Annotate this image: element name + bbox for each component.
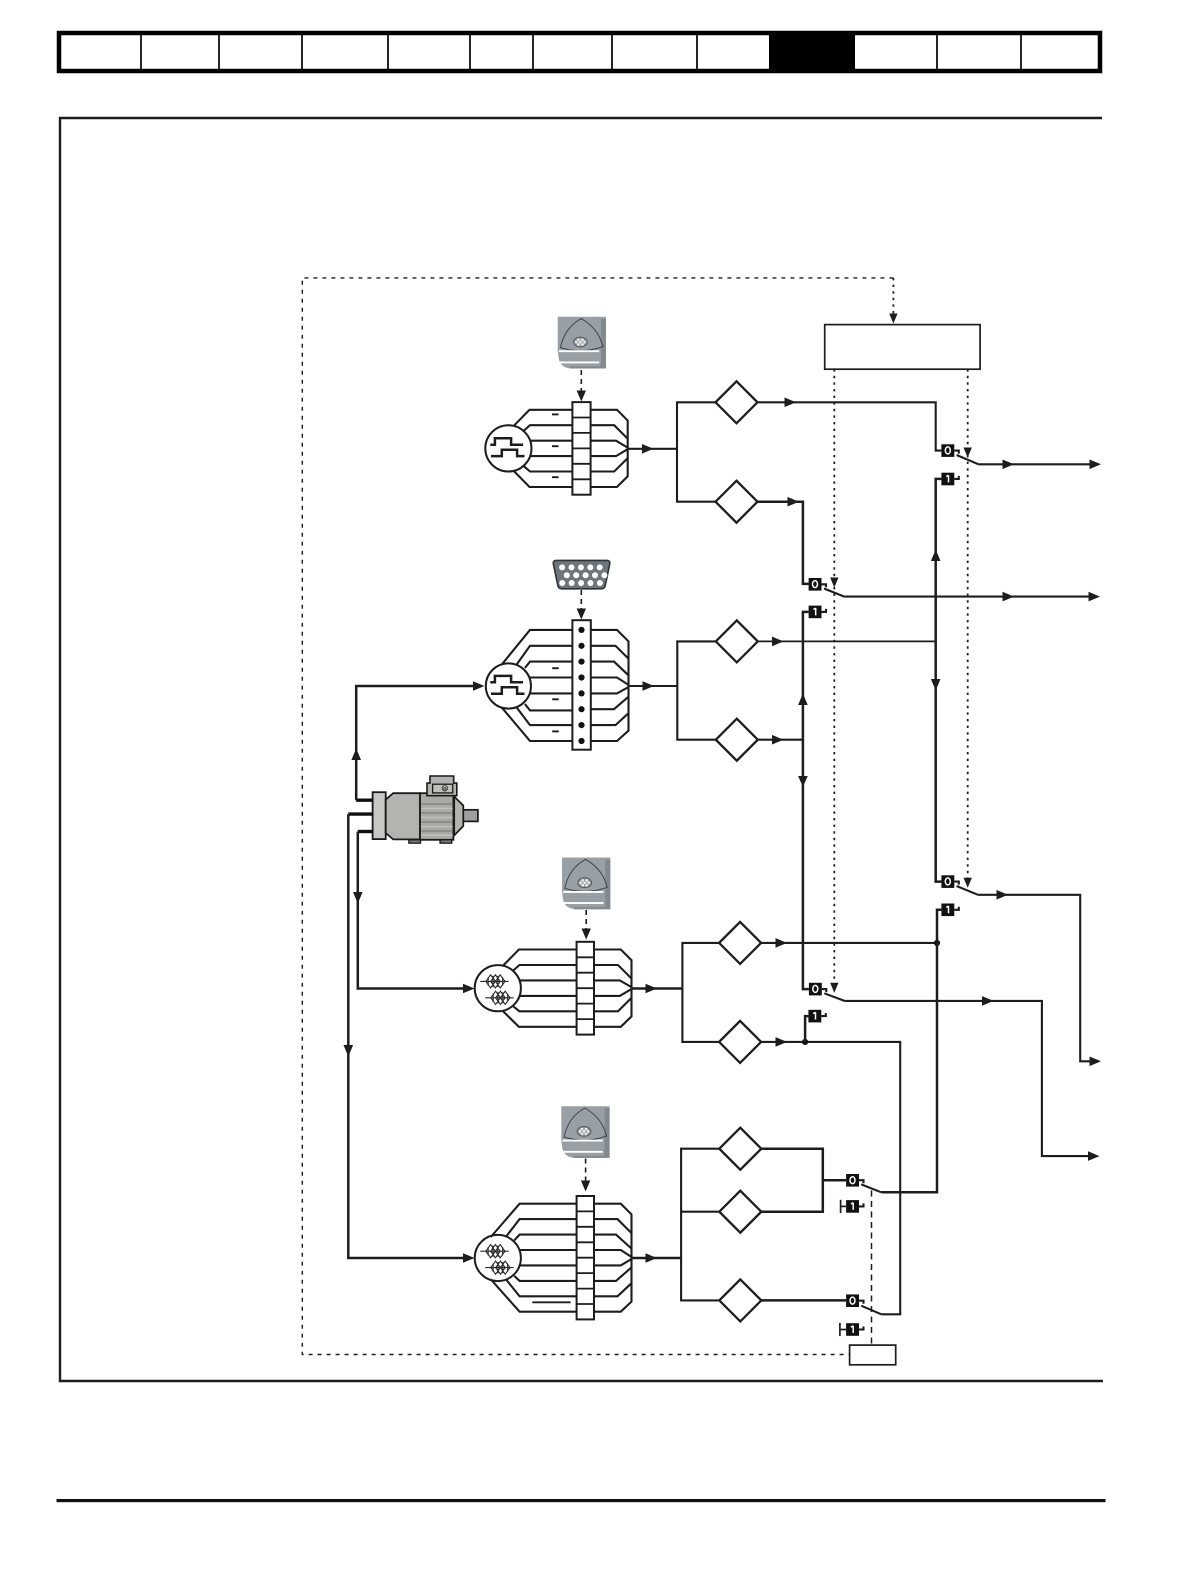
slot select box: [850, 1345, 896, 1365]
selector D output wire: [845, 996, 1100, 1161]
diamond P3a: [719, 922, 761, 964]
page frame: [60, 118, 1103, 1381]
trunk motor to encoder 3: [353, 832, 475, 994]
encoder 3 branch: [682, 943, 719, 1042]
diamond P1a: [716, 381, 758, 423]
complement marks encoder 1: [552, 414, 559, 477]
selector D input-1 lead to dot: [805, 1016, 808, 1042]
dashed link D-type to terminal strip: [577, 590, 586, 620]
dashed link icon4 to terminal strip: [581, 1159, 590, 1192]
wire P1b to selector B0: [758, 497, 809, 584]
right bus-2 vertical (dot to selector E output): [881, 943, 937, 1192]
encoder 2 terminal strip with pins: [572, 620, 590, 750]
solutions module icon slot 1: [558, 317, 606, 369]
dotted control line right (to selectors A and C): [964, 369, 972, 888]
trunk motor to encoder 4: [344, 814, 475, 1263]
selector A output wire: [979, 460, 1102, 470]
diamond P1b: [716, 481, 758, 523]
encoder 4 resolver source circle: [475, 1235, 521, 1281]
encoder 4 branch: [681, 1149, 719, 1301]
encoder 3 output wire: [632, 984, 683, 994]
trunk motor to encoder 2: [351, 681, 484, 800]
wire P2b to left bus: [758, 735, 803, 745]
wire P4c to selector F: [761, 1299, 846, 1302]
selector switch E: [841, 1174, 882, 1213]
option select box: [825, 325, 980, 370]
encoder 2 D-type connector icon: [553, 560, 610, 588]
complement marks encoder 2: [552, 668, 559, 731]
dashed control line selectors E/F: [871, 1191, 873, 1346]
diamond P4c: [719, 1279, 761, 1321]
encoder 2 branch: [677, 641, 716, 739]
solutions module icon slot 3: [561, 1106, 609, 1158]
wire P2a to right bus: [758, 637, 936, 647]
encoder 3 resolver source circle: [475, 965, 521, 1011]
selector C output wire: [978, 890, 1101, 1066]
encoder 2 output wire: [629, 681, 678, 691]
dashed option-fitted boundary: [302, 278, 893, 1355]
encoder 1 pulse source circle: [485, 425, 531, 471]
selector B output wire: [844, 592, 1100, 602]
encoder 1 branch: [677, 402, 716, 501]
diamond P2a: [716, 620, 758, 662]
diamond P2b: [716, 719, 758, 761]
header menu navigation table: [59, 31, 1100, 73]
wire P1a to selector A0: [758, 398, 942, 451]
selector B input-1 lead (left bus): [798, 612, 809, 989]
dotted control drop into option box: [889, 278, 897, 324]
dashed link icon3 to terminal strip: [582, 910, 591, 940]
diamond P3b: [719, 1021, 761, 1063]
encoder 1 terminal strip: [572, 402, 590, 495]
encoder 4 terminal strip: [577, 1196, 594, 1319]
selector switch F: [840, 1294, 881, 1336]
encoder 2 pulse source circle: [486, 663, 531, 708]
wire P3a to junction dot: [761, 938, 940, 948]
encoder 3 cable loom: [503, 950, 631, 1027]
motor wire stubs: [348, 800, 373, 831]
selector switch B: [809, 578, 845, 618]
wires P4a/P4b to selector E: [761, 1149, 846, 1212]
footer rule: [57, 1499, 1106, 1502]
encoder 4 output wire: [632, 1253, 682, 1263]
selector C input-1 lead to dot: [937, 910, 941, 943]
selector switch D: [808, 983, 844, 1023]
encoder 3 terminal strip: [577, 942, 594, 1035]
solutions module icon slot 2: [562, 858, 610, 910]
complement mark encoder 4: [532, 1301, 570, 1303]
dotted control line left (to selectors B and D): [830, 369, 838, 993]
diamond P4b: [719, 1191, 761, 1233]
encoder 1 output wire: [628, 444, 677, 454]
encoder 4 cable loom: [491, 1204, 632, 1312]
diamond P4a: [719, 1128, 761, 1170]
selector switch A: [941, 444, 978, 485]
selector A input-1 lead (bus up): [931, 479, 942, 597]
encoder 2 cable loom: [502, 630, 629, 741]
selector switch C: [941, 875, 978, 916]
wire P3b junction and run to selector F output: [761, 1037, 900, 1314]
motor: [373, 776, 478, 843]
right bus vertical (selector A1 / C0): [931, 597, 942, 882]
encoder 1 cable loom: [514, 410, 628, 487]
dashed link icon1 to terminal strip: [577, 370, 586, 402]
